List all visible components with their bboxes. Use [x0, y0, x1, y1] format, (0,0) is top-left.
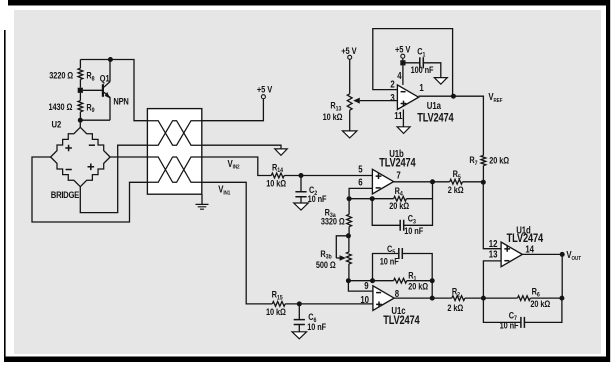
- wire filter box ground stem: [201, 194, 203, 204]
- wire filter to ground arrow: [202, 145, 281, 149]
- svg-text:10 nF: 10 nF: [380, 256, 399, 267]
- svg-text:BRIDGE: BRIDGE: [51, 189, 80, 200]
- wire R6 to node: [530, 297, 562, 299]
- ground triangle right of filter: [275, 149, 288, 155]
- node pin6/R3a/R4: [347, 196, 352, 201]
- node +5V/C1/pin4: [400, 60, 405, 65]
- wire U1d pin13 to feedback node: [483, 261, 501, 298]
- wire feedback line U1c: [348, 280, 372, 282]
- op-amp U1d: [501, 242, 522, 267]
- svg-text:20 kΩ: 20 kΩ: [408, 281, 428, 292]
- resistor R7: [481, 155, 486, 165]
- wire R3b wiper loop: [336, 236, 348, 258]
- wire bridge bottom vertex to filter upper-pair bottom: [80, 145, 147, 212]
- resistor R1: [394, 278, 407, 283]
- wire R13 to ground: [349, 110, 351, 131]
- wire U1a feedback loop: [373, 29, 453, 96]
- svg-text:U1a: U1a: [427, 100, 441, 111]
- svg-text:12: 12: [489, 238, 498, 249]
- svg-text:9: 9: [364, 280, 368, 291]
- wire pin9 entry: [348, 281, 373, 291]
- potentiometer R13 body: [347, 94, 352, 110]
- node R5/R7/pin12: [481, 180, 486, 185]
- wire feedback node to R4: [349, 198, 394, 200]
- resistor R9: [78, 101, 83, 112]
- twisted pair lower: [147, 157, 201, 182]
- node R2/R6/C7/pin13: [481, 296, 486, 301]
- node U1a output/feedback: [451, 94, 456, 99]
- wire U1a pin11 to ground: [402, 110, 404, 127]
- op-amp U1b: [372, 169, 393, 194]
- svg-text:+5 V: +5 V: [257, 83, 273, 94]
- node R1/C5 right: [430, 278, 435, 283]
- svg-text:6: 6: [358, 177, 362, 188]
- wire U1b output to R5: [394, 181, 450, 183]
- wire to R1: [373, 280, 394, 282]
- capacitor C6: [294, 304, 305, 332]
- op-amp U1a: [397, 85, 418, 110]
- ground triangle below pin 11: [397, 127, 410, 134]
- bridge arm top-right (U2): [80, 127, 110, 157]
- wire emitter return: [80, 119, 110, 121]
- svg-text:TLV2474: TLV2474: [379, 157, 416, 170]
- svg-text:3: 3: [390, 92, 394, 103]
- wire R3b top stem: [348, 236, 350, 252]
- svg-text:2: 2: [390, 79, 394, 90]
- wire R9 top stem: [79, 93, 81, 101]
- node U1c output: [430, 296, 435, 301]
- bridge arm bottom-left (U2): [51, 157, 81, 187]
- node bridge top junction: [78, 118, 83, 123]
- wire VIN1 to R15: [202, 182, 272, 304]
- resistor R6: [518, 296, 531, 301]
- resistor R5: [450, 179, 463, 184]
- resistor R14: [271, 173, 284, 178]
- wire R2 to node: [465, 297, 484, 299]
- node R14/C2 junction: [299, 173, 304, 178]
- wire VOUT to R6 node: [561, 254, 563, 298]
- svg-text:2 kΩ: 2 kΩ: [447, 302, 463, 313]
- svg-text:20 kΩ: 20 kΩ: [530, 298, 550, 309]
- EMI filter box U3: [147, 109, 201, 195]
- wire collector top rail to filter box: [80, 60, 147, 121]
- wire R15 to U1c pin10: [285, 303, 373, 305]
- op-amp U1c: [373, 286, 394, 311]
- wire U1c output to R2: [394, 297, 452, 299]
- ground triangle below C1: [434, 78, 447, 85]
- node R3b/pin9: [346, 278, 351, 283]
- terminal +5V above filter: [261, 95, 265, 99]
- node C3 tap: [370, 196, 375, 201]
- svg-text:20 kΩ: 20 kΩ: [489, 155, 509, 166]
- wire U1b pin6 to feedback node: [349, 188, 372, 196]
- svg-text:NPN: NPN: [113, 95, 128, 106]
- svg-text:4: 4: [397, 70, 401, 81]
- node U1b output: [430, 179, 435, 184]
- svg-text:U2: U2: [52, 119, 62, 130]
- capacitor C7: [483, 298, 562, 328]
- wire R4 to U1b output: [406, 182, 432, 199]
- svg-text:+5 V: +5 V: [395, 44, 411, 55]
- svg-text:20 kΩ: 20 kΩ: [389, 200, 409, 211]
- terminal +5V above U1a pin4: [401, 54, 405, 58]
- svg-text:5: 5: [358, 164, 362, 175]
- wire R3a bottom stem: [348, 227, 350, 236]
- svg-text:3320 Ω: 3320 Ω: [321, 216, 345, 227]
- twisted pair upper: [147, 121, 201, 146]
- wire +5V terminal to node: [402, 58, 404, 60]
- wire R3b bottom stem: [348, 264, 350, 281]
- svg-text:7: 7: [396, 170, 400, 181]
- bridge arm bottom-right (U2): [80, 157, 110, 187]
- resistor R2: [452, 296, 465, 301]
- svg-text:11: 11: [394, 110, 402, 121]
- svg-text:TLV2474: TLV2474: [417, 112, 454, 125]
- node collector/top-rail junction: [108, 57, 113, 62]
- wire U1a output to R7 (VREF): [419, 96, 484, 155]
- wire filter to +5V supply: [202, 99, 264, 121]
- node VOUT: [560, 252, 565, 257]
- svg-text:13: 13: [489, 249, 498, 260]
- ground triangle below C6: [292, 332, 307, 339]
- ground triangle below C2: [294, 203, 309, 210]
- svg-text:+5 V: +5 V: [341, 45, 357, 56]
- capacitor C2: [295, 176, 306, 204]
- svg-text:2 kΩ: 2 kΩ: [448, 184, 464, 195]
- wire node to U1d pin12: [483, 182, 501, 249]
- ground earth symbol below filter box: [196, 204, 209, 209]
- svg-text:100 nF: 100 nF: [411, 64, 434, 75]
- wire R1 to node: [407, 280, 432, 282]
- wire R14 to U1b pin5: [284, 175, 372, 177]
- bridge arm top-left (U2): [51, 127, 81, 157]
- wire U1d output: [522, 253, 562, 255]
- resistor R15: [272, 302, 285, 307]
- wire bridge right vertex to filter lower-pair top: [110, 156, 147, 158]
- wire R5 to node: [463, 181, 484, 183]
- node R3a/R3b: [346, 233, 351, 238]
- wire bridge left vertex to filter lower-pair bottom: [32, 157, 147, 222]
- svg-text:500 Ω: 500 Ω: [316, 259, 336, 270]
- R13 wiper arrow: [360, 100, 398, 102]
- svg-text:10 kΩ: 10 kΩ: [323, 111, 343, 122]
- wire R7 to node: [482, 166, 484, 183]
- svg-text:3220 Ω: 3220 Ω: [49, 70, 73, 81]
- wire R8 bottom stem: [79, 79, 81, 87]
- wire VIN2 to R14: [202, 157, 271, 176]
- resistor R3b: [347, 252, 352, 264]
- capacitor C5: [373, 248, 433, 281]
- wire R9 bottom stem: [79, 112, 81, 120]
- wire node to R6: [483, 297, 517, 299]
- svg-text:Q1: Q1: [100, 73, 110, 84]
- svg-text:14: 14: [525, 244, 534, 255]
- resistor R3a: [347, 214, 352, 226]
- terminal +5V above R13: [348, 55, 352, 59]
- capacitor C3: [372, 199, 432, 231]
- capacitor C1: [406, 57, 441, 77]
- wire +5V to R13: [349, 59, 351, 94]
- svg-text:10 nF: 10 nF: [307, 321, 326, 332]
- wire R3a top stem: [348, 199, 350, 215]
- transistor Q1: [103, 60, 110, 121]
- svg-text:10 nF: 10 nF: [404, 225, 423, 236]
- node R6/C7 right: [559, 296, 564, 301]
- wire U1a pin4 stem: [402, 65, 404, 85]
- label bridge polarity signs: [65, 145, 95, 170]
- svg-text:10 kΩ: 10 kΩ: [266, 178, 286, 189]
- resistor R8: [78, 68, 83, 79]
- svg-text:10 nF: 10 nF: [500, 320, 519, 331]
- svg-text:1430 Ω: 1430 Ω: [49, 101, 73, 112]
- svg-text:10 nF: 10 nF: [308, 193, 327, 204]
- svg-text:1: 1: [419, 82, 423, 93]
- wire bridge top stem: [79, 120, 81, 127]
- ground triangle below R13: [342, 131, 357, 138]
- wire C5/R1 to output: [431, 281, 433, 298]
- node R15/C6: [297, 301, 302, 306]
- node C5 tap: [370, 278, 375, 283]
- wire base of Q1: [83, 89, 102, 91]
- svg-text:TLV2474: TLV2474: [383, 314, 420, 327]
- node R8/R9/base junction: [78, 88, 83, 93]
- svg-text:10 kΩ: 10 kΩ: [266, 306, 286, 317]
- potentiometer R3b wiper arrow: [336, 257, 340, 259]
- resistor R4: [394, 196, 407, 201]
- wire R8 top stem: [79, 60, 81, 69]
